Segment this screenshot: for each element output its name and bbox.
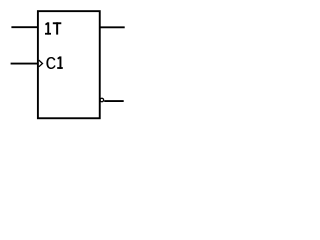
flip-flop body U1 bbox=[38, 11, 100, 118]
wire T input bbox=[11, 26, 38, 28]
wire Q-bar output bbox=[104, 100, 124, 102]
svg-text:C: C bbox=[45, 54, 56, 75]
wire Q output bbox=[100, 26, 125, 28]
label 1T : digit 1 bbox=[45, 22, 51, 34]
label 1T : letter T bbox=[53, 22, 62, 34]
clock dynamic-input triangle bbox=[39, 60, 43, 67]
wire clock input bbox=[11, 63, 38, 65]
inversion bubble bbox=[100, 98, 104, 102]
label C1 : digit 1 bbox=[57, 56, 63, 69]
